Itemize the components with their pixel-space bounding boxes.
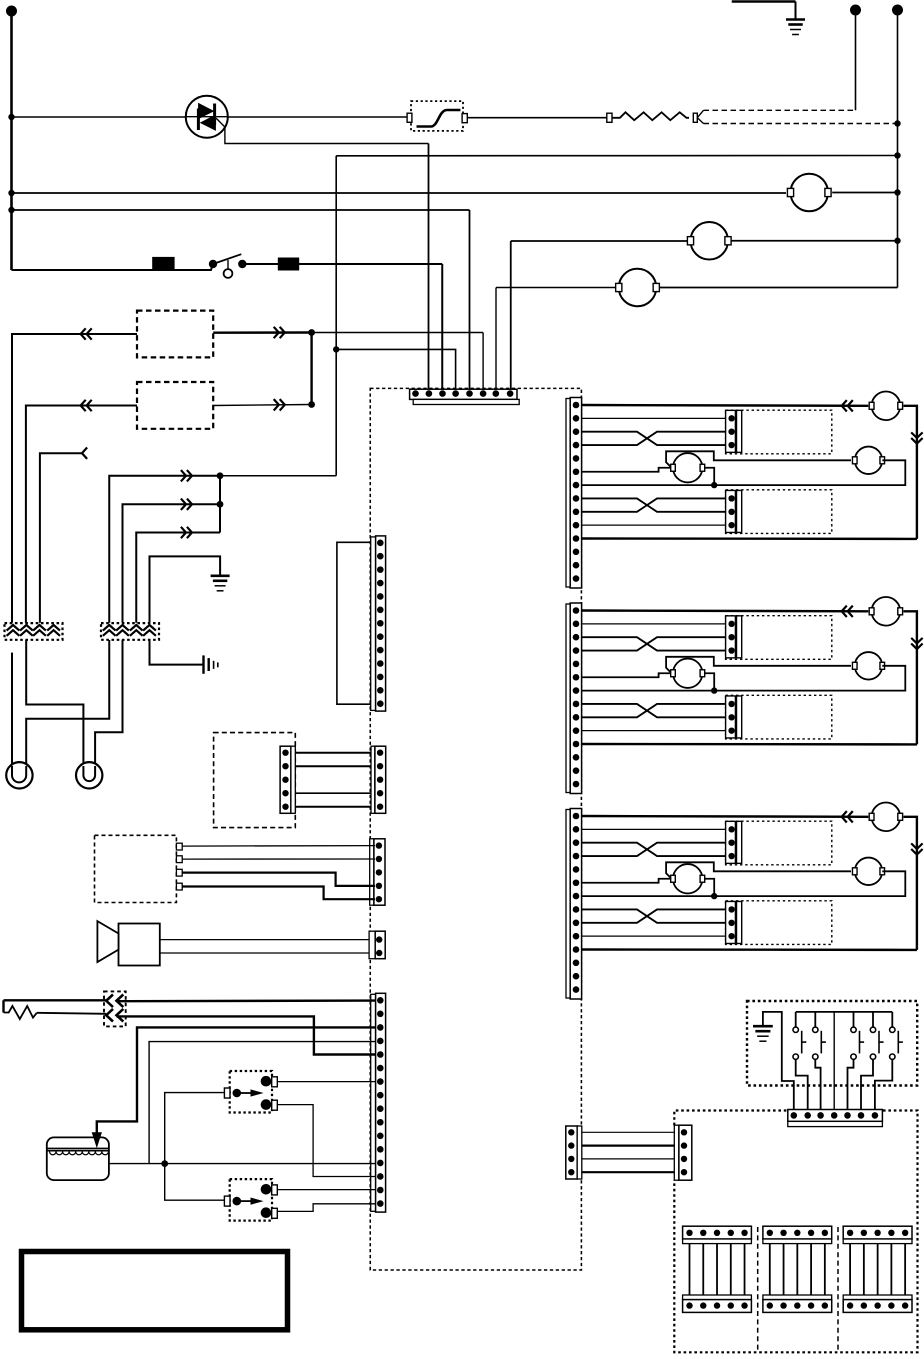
contact upper bbox=[261, 1076, 272, 1087]
divider dashed 1 bbox=[757, 1227, 759, 1352]
connector C4 14-pin bbox=[566, 603, 582, 794]
wire to body ground bbox=[732, 0, 796, 3]
wire pin2 to switch connector bbox=[582, 417, 726, 419]
wire lock motor feed bbox=[582, 609, 869, 612]
wire sensor 3 bbox=[136, 533, 220, 623]
node junction bbox=[217, 501, 224, 508]
node junction K2 bbox=[308, 401, 315, 408]
wire bus y210 bbox=[12, 209, 470, 211]
connector C1 8-pin bbox=[410, 389, 520, 404]
wire pin2 to switch connector bbox=[582, 623, 726, 625]
wire M2 left bbox=[511, 240, 688, 242]
ring terminal eyelet 2 bbox=[76, 762, 102, 788]
splice block S3 (dotted) bbox=[104, 991, 126, 1026]
chassis ground (rotated) bbox=[204, 655, 218, 673]
wire crossover pair upper bbox=[582, 843, 726, 856]
wire pin10 bbox=[582, 730, 726, 732]
node junction motor M1 bbox=[894, 189, 900, 195]
motor M2 power vent bbox=[687, 222, 731, 260]
wire to pin4 bbox=[336, 349, 455, 393]
wire join x220 bbox=[219, 476, 221, 533]
lock switch assembly SW-E (dashed) bbox=[726, 821, 832, 865]
contact upper bbox=[261, 1184, 272, 1195]
wire return to ring 2 bbox=[95, 640, 122, 766]
wire actuator bridge bbox=[666, 862, 851, 878]
wire receiver B left bbox=[26, 406, 137, 623]
ground body G1 bbox=[786, 20, 805, 35]
wire receiver B right bbox=[213, 405, 311, 406]
arrow battery feed bbox=[96, 1133, 98, 1136]
connector C3 14-pin bbox=[566, 398, 582, 589]
ring terminal eyelet 1 bbox=[6, 762, 32, 788]
lock switch assembly SW-B (dashed) bbox=[726, 490, 832, 534]
connector C2 13-pin bbox=[371, 536, 386, 711]
panel master switch (dotted) bbox=[747, 1001, 917, 1086]
wire M2 right bbox=[730, 240, 897, 242]
triac circuit breaker bbox=[186, 96, 228, 138]
module key cylinder (dashed) bbox=[214, 733, 296, 828]
node junction actuator bbox=[711, 482, 717, 488]
ground switch panel bbox=[763, 1012, 794, 1115]
wire ground stem bbox=[795, 2, 797, 20]
wire loop pin1-pin13 bbox=[337, 542, 371, 704]
wire pin6 to actuator bbox=[582, 468, 671, 472]
wire pair 2 bbox=[582, 1144, 674, 1146]
wire bbox=[849, 1233, 851, 1306]
motor M10 door lock bbox=[869, 803, 902, 832]
wire keyless 1 bbox=[176, 843, 182, 850]
wire receiver A right bbox=[213, 331, 311, 334]
wire pair 5 bbox=[295, 806, 371, 808]
splice block S1 (dashed) bbox=[5, 623, 63, 640]
node junction y117 bbox=[8, 114, 14, 120]
ground G3 bbox=[753, 1026, 773, 1041]
wire crossover pair lower bbox=[582, 498, 726, 511]
connector C8 5-pin bbox=[370, 839, 385, 905]
lock switch assembly SW-C (dashed) bbox=[726, 616, 832, 660]
node junction x336 bbox=[333, 346, 339, 352]
wire bbox=[877, 1233, 879, 1306]
wire to pin6 bbox=[312, 332, 484, 334]
wire bbox=[904, 1233, 906, 1306]
wire pair 4 bbox=[295, 792, 371, 794]
wire crossover pair lower bbox=[582, 909, 726, 922]
wire actuator return bbox=[705, 879, 715, 896]
contact plunger bbox=[233, 1197, 242, 1206]
wire harness feed 1 bbox=[4, 999, 107, 1001]
divider dashed 2 bbox=[837, 1227, 839, 1352]
switch lock button 3 bbox=[851, 1012, 864, 1060]
switch door jamb rear (dotted) bbox=[230, 1179, 272, 1221]
wire pin10 bbox=[582, 935, 726, 937]
wire speaker - bbox=[160, 952, 375, 954]
wire receiver A left bbox=[12, 334, 137, 623]
wire bbox=[744, 1233, 746, 1306]
wire speaker + bbox=[160, 939, 375, 941]
lock switch assembly SW-A (dashed) bbox=[726, 410, 832, 454]
wire switch to pin3 bbox=[242, 263, 442, 265]
wire motor A return bbox=[904, 406, 917, 539]
wire to door switch 1 bbox=[165, 1093, 225, 1164]
wire button 2 to pin bbox=[815, 1059, 820, 1115]
wire keyless 4 bbox=[176, 883, 182, 890]
node junction fuse out bbox=[161, 1160, 168, 1167]
motor M9 door unlock bbox=[852, 652, 884, 680]
module door-lock controller (dotted) bbox=[370, 388, 581, 1270]
switch lock button 4 bbox=[870, 1012, 883, 1060]
wire bus y193 to motor M1 bbox=[12, 192, 787, 194]
wire pin2 to switch connector bbox=[582, 828, 726, 830]
motor M5 actuator bbox=[671, 453, 705, 482]
wire pin6 to actuator bbox=[582, 879, 671, 883]
wire to x336 vertical bbox=[220, 475, 336, 477]
wire to triac and thermal element bbox=[12, 116, 408, 118]
wire battery return loop bbox=[149, 1042, 375, 1164]
wire shield chassis bbox=[150, 640, 203, 665]
wire bbox=[863, 1233, 865, 1306]
node junction y210 bbox=[8, 207, 14, 213]
wire bbox=[769, 1233, 771, 1306]
wire to door switch 2 bbox=[165, 1164, 225, 1201]
wire pin11 bottom return bbox=[582, 537, 917, 540]
motor M6 door unlock bbox=[852, 447, 884, 475]
thermal protector (PTC) bbox=[411, 101, 463, 131]
wire pair 1 bbox=[582, 1131, 674, 1133]
wire dashed split to terminals bbox=[697, 110, 703, 117]
contact lower bbox=[261, 1099, 272, 1110]
wire switch bus bbox=[796, 1011, 893, 1013]
wire down to pin7 bbox=[495, 288, 497, 394]
wire harness feed 2 with resistor bbox=[2, 1000, 4, 1012]
wire sensor 1 bbox=[109, 476, 220, 623]
fuse box battery junction bbox=[47, 1137, 109, 1180]
wire K1 to K2 bbox=[310, 333, 312, 405]
wire bus center to pin4 bbox=[833, 1012, 835, 1115]
terminal feed B bbox=[892, 5, 903, 16]
wire bbox=[702, 1233, 704, 1306]
wire pair 2 bbox=[295, 765, 371, 767]
lock switch assembly SW-D (dashed) bbox=[726, 695, 832, 739]
wire button 5 to pin bbox=[875, 1059, 892, 1115]
wire keyless 3 bbox=[176, 869, 182, 876]
switch ignition bbox=[209, 254, 247, 278]
enclosure rear junction (dotted) bbox=[674, 1111, 788, 1126]
terminal battery feed bbox=[6, 6, 17, 17]
wire motor B return / pin7 bbox=[582, 460, 906, 485]
connector C5 14-pin bbox=[566, 809, 582, 1000]
wire M1 right bbox=[832, 192, 897, 194]
wire button 1 to pin bbox=[796, 1059, 808, 1115]
wire return to ring 1 bbox=[26, 640, 109, 766]
module keyless receiver (dashed) bbox=[95, 835, 177, 902]
node junction y193 bbox=[8, 190, 14, 196]
switch lock button 5 bbox=[890, 1012, 903, 1060]
legend box (empty) bbox=[22, 1252, 288, 1330]
wire down to pin8 bbox=[510, 241, 512, 394]
wire motor B return / pin7 bbox=[582, 871, 906, 896]
wire bbox=[824, 1233, 826, 1306]
wire pair 1 bbox=[295, 752, 371, 754]
splice block S2 (dashed) bbox=[101, 623, 159, 640]
wire motor A return bbox=[904, 817, 917, 950]
wire splice to ring 2 bbox=[26, 640, 83, 766]
node junction K1 bbox=[308, 329, 315, 336]
wire lock motor feed bbox=[582, 404, 869, 407]
wire jamb2 upper to pin15 bbox=[277, 1189, 375, 1191]
connector inline (filled) bbox=[278, 258, 298, 270]
wire shield to ground bbox=[150, 556, 221, 622]
motor M1 power vent bbox=[787, 174, 831, 212]
node junction actuator bbox=[711, 893, 717, 899]
wire sensor 2 bbox=[123, 504, 221, 623]
wire bbox=[890, 1233, 892, 1306]
connector C13 7-pin bbox=[788, 1110, 883, 1127]
wire lock motor feed bbox=[582, 815, 869, 818]
wire antenna stub bbox=[40, 453, 82, 623]
wire battery feed to pin3 bbox=[97, 1027, 376, 1133]
wire M3 left bbox=[496, 287, 619, 289]
motor M4 door lock bbox=[869, 392, 902, 421]
wire pair 3 bbox=[582, 1158, 674, 1160]
wire fuse output bbox=[109, 1163, 376, 1165]
wire main vertical right bbox=[897, 10, 899, 288]
wire jamb1 lower to pin14 bbox=[277, 1105, 375, 1177]
switch lock button 1 bbox=[793, 1012, 806, 1060]
wire crossover pair upper bbox=[582, 432, 726, 445]
wire terminal A down bbox=[855, 10, 857, 110]
wire switch feed bbox=[12, 265, 213, 271]
connector inline bbox=[224, 1088, 230, 1098]
wire button 4 to pin bbox=[861, 1059, 873, 1115]
motor M11 actuator bbox=[671, 864, 705, 893]
wire keyless 2 bbox=[176, 856, 182, 863]
wire jamb2 lower to pin16 bbox=[277, 1204, 375, 1212]
switch lock button 2 bbox=[813, 1012, 826, 1060]
node junction y155 bbox=[894, 152, 900, 158]
node junction motor M2 bbox=[894, 238, 900, 244]
wire crossover pair upper bbox=[582, 637, 726, 650]
connector inline (filled) bbox=[153, 257, 174, 270]
connector C6 5-pin bbox=[280, 746, 295, 813]
motor M3 power vent bbox=[616, 269, 660, 307]
wire M3 right bbox=[658, 287, 897, 289]
connector C9 2-pin bbox=[369, 931, 385, 959]
node junction actuator bbox=[711, 687, 717, 693]
motor M8 actuator bbox=[671, 659, 705, 688]
wire bus y156 bbox=[336, 155, 897, 157]
module receiver B (dashed) bbox=[137, 382, 213, 429]
wire pin11 bottom return bbox=[582, 948, 917, 951]
connector C10 16-pin bbox=[371, 993, 386, 1212]
wire thermal to resistor bbox=[467, 117, 609, 119]
wire bbox=[810, 1233, 812, 1306]
wire pin11 bottom return bbox=[582, 743, 917, 746]
wire down to pin5 bbox=[469, 210, 471, 394]
module receiver A (dashed) bbox=[137, 311, 213, 358]
contact plunger bbox=[233, 1089, 242, 1098]
speaker chime bbox=[97, 921, 159, 965]
wire motor A return bbox=[904, 611, 917, 744]
wire actuator return bbox=[705, 673, 715, 690]
wire actuator bridge bbox=[666, 657, 851, 673]
resistor ballast bbox=[607, 113, 612, 122]
wire triac to pin2 bbox=[428, 144, 430, 394]
wire bbox=[783, 1233, 785, 1306]
wire main vertical left bbox=[10, 11, 13, 270]
contact lower bbox=[261, 1207, 272, 1218]
connector C12 4-pin bbox=[674, 1125, 692, 1180]
wire jamb1 upper to pin7 bbox=[277, 1081, 375, 1083]
wire pair 4 bbox=[582, 1171, 674, 1173]
switch door jamb front (dotted) bbox=[230, 1071, 272, 1113]
wire motor B return / pin7 bbox=[582, 666, 906, 691]
wire down to pin3 bbox=[441, 264, 443, 394]
ground G2 bbox=[211, 576, 230, 591]
wire actuator bridge bbox=[666, 451, 851, 467]
wire triac gate to connector pin bbox=[216, 118, 428, 143]
wire bbox=[730, 1233, 732, 1306]
terminal feed A bbox=[850, 5, 861, 16]
wire vertical x336 bbox=[335, 156, 337, 476]
node junction dashed B bbox=[894, 120, 900, 126]
wire splice to ring 1 bbox=[11, 653, 13, 766]
connector inline bbox=[224, 1196, 230, 1206]
connector C7 5-pin bbox=[371, 746, 386, 813]
wire crossover pair lower bbox=[582, 704, 726, 717]
node junction bbox=[217, 472, 224, 479]
wire bbox=[689, 1233, 691, 1306]
motor M7 door lock bbox=[869, 597, 902, 626]
wire bbox=[716, 1233, 718, 1306]
wire actuator return bbox=[705, 468, 715, 485]
wire bbox=[796, 1233, 798, 1306]
wire pin10 bbox=[582, 524, 726, 526]
wire pin6 to actuator bbox=[582, 673, 671, 677]
motor M12 door unlock bbox=[852, 858, 884, 886]
lock switch assembly SW-F (dashed) bbox=[726, 901, 832, 945]
wire button 3 to pin bbox=[848, 1059, 854, 1115]
connector C11 4-pin bbox=[566, 1126, 582, 1179]
